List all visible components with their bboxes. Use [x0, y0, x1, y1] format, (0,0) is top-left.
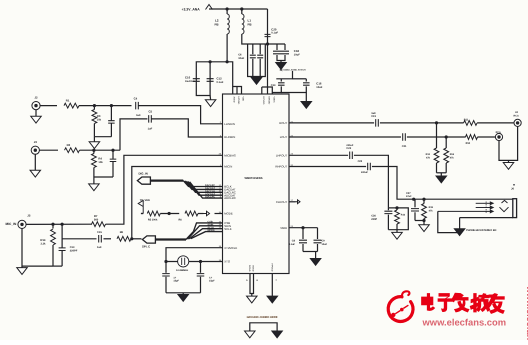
junction hp rail R15	[422, 198, 425, 201]
svg-text:R4: R4	[98, 157, 102, 161]
svg-text:47uF: 47uF	[406, 195, 412, 198]
wire DGND pins down	[250, 274, 254, 294]
headphone jack contact tip	[476, 202, 491, 204]
jack J7 LOUT RCA	[495, 133, 502, 140]
svg-text:ADCLRC: ADCLRC	[205, 196, 215, 199]
jack J5 mic input	[18, 220, 26, 228]
wire bus fan SCLK	[189, 229, 222, 239]
wire R10 to J7	[478, 136, 496, 138]
wire DCVDD riser	[262, 87, 273, 94]
svg-text:R16: R16	[401, 214, 406, 217]
ground analog decoupling	[205, 100, 216, 107]
svg-text:220uF: 220uF	[361, 171, 368, 174]
junction C12 top	[209, 60, 212, 63]
jack J2 left line input	[32, 102, 40, 110]
svg-text:R2: R2	[67, 143, 71, 147]
wire R11 to J4	[477, 122, 514, 124]
junction hp shunt gnd	[422, 219, 425, 222]
junction left-in node	[93, 104, 96, 107]
wire J5 to node	[26, 223, 92, 225]
svg-text:+3.3V_ANA: +3.3V_ANA	[182, 8, 201, 12]
svg-text:10uF: 10uF	[322, 243, 328, 246]
wire node up to C5 row	[120, 119, 147, 150]
ground load resistors	[436, 176, 447, 183]
wire CLKOUT stub	[289, 201, 296, 203]
svg-text:R1: R1	[66, 98, 70, 102]
svg-text:SCLK: SCLK	[224, 227, 231, 231]
svg-text:DCVDD: DCVDD	[262, 97, 265, 105]
junction esd box	[395, 206, 398, 209]
svg-text:PHONEJACKSTEREO EN: PHONEJACKSTEREO EN	[466, 229, 496, 232]
svg-text:DGND: DGND	[248, 265, 251, 272]
capacitor C14 0.1uF	[280, 79, 282, 82]
ground C16	[301, 102, 312, 109]
junction right-in node	[92, 149, 95, 152]
svg-text:WM8731SEDS: WM8731SEDS	[245, 177, 263, 180]
resistor R3 10k shunt	[93, 106, 95, 110]
capacitor C4 series	[136, 102, 139, 110]
net arrow to MODE pin	[204, 211, 210, 216]
inductor L1	[242, 14, 244, 34]
svg-text:XTO: XTO	[224, 260, 231, 264]
wire L1 to digital rail	[242, 34, 268, 44]
net arrow CLKOUT	[296, 200, 301, 204]
wire XTI to crystal	[166, 248, 223, 262]
wire right-in shunt bottoms	[94, 176, 113, 178]
ground hp shunt	[419, 225, 430, 232]
junction micin riser	[130, 237, 133, 240]
svg-text:1uF: 1uF	[371, 112, 376, 115]
junction mode pull	[168, 212, 171, 215]
ground esd pair	[392, 232, 403, 239]
wire R5 to R6	[160, 213, 179, 215]
svg-text:0.1uF: 0.1uF	[271, 32, 278, 35]
svg-text:MIC_IN: MIC_IN	[6, 222, 18, 226]
capacitor C18 10uF	[284, 44, 286, 50]
jack J3 right line input	[31, 146, 39, 154]
wire load resistor bottoms	[437, 172, 447, 174]
capacitor C12 0.1uF	[207, 79, 214, 82]
chip top pin labels	[233, 97, 276, 105]
svg-text:LOUT: LOUT	[280, 135, 288, 139]
op-amp U1 WM8731 codec body	[223, 94, 290, 274]
wire LOUT row	[289, 136, 401, 138]
svg-text:R8: R8	[120, 231, 124, 234]
capacitor C13 220pF shunt	[61, 224, 63, 248]
capacitor C8 0.1uF	[302, 228, 304, 239]
svg-text:R3: R3	[97, 114, 101, 118]
wire bus fan ADCLRC	[190, 182, 223, 198]
svg-text:MODE: MODE	[224, 212, 233, 216]
capacitor C7 10uF pair-b	[259, 44, 261, 54]
wire left-in shunt bottoms	[94, 136, 111, 138]
ground join right	[272, 331, 283, 338]
wire J2 to R1	[40, 105, 57, 107]
wire C14 C16 bottoms	[272, 86, 281, 92]
wire J2 ground	[35, 110, 37, 117]
chip left pin labels	[219, 121, 238, 263]
wire L2 to analog decoupling node	[226, 34, 228, 62]
bus wire net name tags	[205, 184, 215, 199]
ground right-in network	[89, 184, 100, 191]
ground DGND	[247, 296, 257, 303]
wire R6 to arrow	[198, 213, 204, 215]
svg-text:ADCLRC: ADCLRC	[224, 196, 236, 200]
wire bus fan MODE2	[191, 232, 223, 239]
capacitor C27 47uF	[414, 199, 416, 207]
svg-text:47k: 47k	[426, 156, 431, 159]
spi wire net name tags	[208, 221, 216, 233]
junction A-node	[226, 60, 229, 63]
wire bus fan ADCDAT	[188, 182, 223, 196]
ground C18 pair	[276, 63, 287, 70]
svg-text:220uF: 220uF	[346, 144, 353, 147]
capacitor C17 10uF	[276, 44, 278, 50]
wire ROUT row	[289, 122, 374, 124]
svg-text:MODE: MODE	[208, 229, 216, 232]
wire DBVDD cluster top	[276, 71, 292, 79]
svg-text:10uF: 10uF	[238, 57, 244, 60]
net label DGND_AGND_STITCH	[280, 69, 283, 71]
headphone jack J6 sleeve bar	[513, 199, 517, 218]
watermark chinese title	[422, 293, 505, 313]
crystal X1 12.288MHz	[178, 256, 189, 267]
wire C5 to RLINEIN	[151, 119, 222, 137]
capacitor C3 shunt	[112, 150, 114, 159]
inductor L2	[227, 14, 229, 34]
resistor R13 47k load	[445, 137, 447, 148]
svg-text:VDD: VDD	[242, 97, 245, 102]
svg-text:560: 560	[94, 218, 99, 221]
junction vmid c8	[301, 226, 304, 229]
ground AGND	[267, 296, 278, 303]
svg-text:R5 100k: R5 100k	[148, 218, 158, 221]
svg-text:47k: 47k	[429, 209, 434, 212]
svg-text:C15: C15	[97, 231, 102, 234]
wire crystal bottom rail	[166, 292, 201, 294]
wire phone jack ground stem	[459, 218, 461, 229]
svg-text:0.1uF: 0.1uF	[289, 243, 296, 246]
wire XTO to crystal	[201, 261, 223, 263]
svg-text:RCA: RCA	[514, 115, 519, 118]
capacitor C23 220uF series	[368, 163, 371, 171]
svg-text:DGND_AGND_STITCH: DGND_AGND_STITCH	[284, 69, 307, 72]
wire ground join bracket	[250, 323, 277, 331]
headphone jack contact ring	[476, 207, 491, 209]
svg-text:1uF: 1uF	[97, 246, 102, 249]
svg-text:VDDC: VDDC	[272, 97, 275, 104]
svg-text:www.elecfans.com: www.elecfans.com	[422, 316, 507, 327]
wire C12 to ground	[209, 96, 212, 100]
watermark elecfans logo ring	[388, 291, 413, 321]
svg-text:SPI_C: SPI_C	[142, 244, 150, 248]
wire mic shunt bottoms	[53, 265, 62, 267]
wire C19 to R11	[380, 122, 464, 124]
ground left-in network	[89, 142, 100, 149]
wire RCA jack grounds	[499, 127, 518, 161]
svg-text:RLINEIN: RLINEIN	[224, 135, 235, 139]
capacitor C15 1uF series	[99, 235, 102, 243]
capacitor C26 220pF esd	[387, 208, 389, 210]
svg-text:R11: R11	[464, 119, 469, 122]
svg-text:AVDD: AVDD	[233, 97, 236, 103]
junction crystal right	[199, 260, 202, 263]
wire J3 ground	[34, 154, 36, 170]
wire C18 pair to ground	[277, 55, 285, 61]
wire AVDD riser	[227, 62, 233, 94]
wire mic ac path	[62, 238, 96, 240]
wire flag to R5	[141, 213, 143, 215]
svg-text:HPVDD: HPVDD	[237, 97, 240, 105]
svg-text:R14: R14	[40, 238, 46, 242]
capacitor C2 shunt	[110, 106, 112, 121]
junction lout load	[445, 135, 448, 138]
svg-text:10uF: 10uF	[294, 53, 300, 56]
wire C21 to R10	[407, 136, 466, 138]
capacitor C9 10uF	[317, 228, 319, 239]
svg-text:ROUT: ROUT	[279, 121, 287, 125]
svg-text:XTI/MCLK: XTI/MCLK	[224, 246, 237, 250]
svg-text:J5: J5	[27, 214, 31, 218]
wire MODE stub	[215, 213, 223, 215]
power symbol +3.3V_ANA	[206, 5, 213, 10]
wire C16 to ground	[305, 93, 307, 102]
resistor R5 100k	[147, 211, 160, 216]
wire AGND pin down	[271, 274, 273, 297]
wire bus fan DACDAT	[185, 181, 223, 190]
capacitor C22 220uF series	[350, 152, 353, 160]
ground crystal	[182, 293, 184, 295]
junction rail-L1	[240, 7, 243, 10]
svg-text:C10: C10	[185, 76, 191, 80]
svg-text:47k: 47k	[450, 156, 455, 159]
svg-text:LHPOUT: LHPOUT	[276, 153, 288, 157]
svg-text:DIG_IN: DIG_IN	[139, 172, 148, 176]
svg-text:3.3k: 3.3k	[40, 242, 46, 245]
headphone jack contact ticks	[485, 202, 487, 214]
svg-text:220P: 220P	[371, 218, 377, 221]
svg-text:AGND: AGND	[252, 265, 255, 272]
capacitor C6 10uF pair-a	[252, 44, 254, 54]
wire node to C10 group	[196, 62, 227, 96]
wire R8 to MICIN riser	[131, 167, 223, 239]
resistor R15 47k	[422, 204, 427, 219]
wire LHPOUT row	[289, 154, 348, 156]
wire analog cap box	[248, 44, 266, 77]
wire crystal top rail	[166, 261, 201, 263]
svg-text:R7: R7	[94, 214, 98, 218]
ground phone jack	[454, 229, 465, 236]
svg-text:HPGND: HPGND	[270, 264, 273, 272]
svg-text:C19: C19	[371, 115, 376, 118]
wire R1 to node	[79, 105, 132, 107]
wire VMID row	[289, 227, 318, 229]
resistor R2	[65, 148, 80, 153]
svg-text:LLINEIN: LLINEIN	[224, 122, 235, 126]
svg-text:12.288MHz: 12.288MHz	[176, 269, 189, 272]
resistor R6 100k	[185, 211, 198, 216]
svg-text:C22: C22	[346, 147, 351, 150]
svg-text:1uF: 1uF	[148, 128, 153, 131]
resistor R10	[466, 135, 478, 140]
resistor R11	[464, 121, 478, 126]
svg-text:10k: 10k	[98, 161, 103, 164]
svg-text:10uF/16V: 10uF/16V	[185, 80, 196, 83]
wire R7 to MICBIAS	[106, 155, 223, 224]
capacitor C20 0.1uF on rail	[265, 34, 271, 36]
resistor R8	[117, 236, 131, 241]
jack J4 ROUT RCA	[514, 119, 521, 126]
ground RCA jacks	[503, 163, 514, 170]
off-page connector DIG_IN	[137, 177, 150, 184]
wire spi bus thick	[155, 238, 186, 240]
wire digital bus thick	[150, 180, 183, 182]
svg-text:DBVDD: DBVDD	[268, 97, 271, 105]
headphone jack springs	[500, 200, 509, 211]
ground J3	[30, 170, 41, 177]
svg-text:C5: C5	[149, 110, 153, 114]
wire headphone bottom rail	[460, 217, 513, 219]
off-page connector SPI_C	[142, 236, 155, 243]
capacitor C5 series	[149, 115, 152, 123]
wire C22 to headphone box	[354, 155, 389, 208]
svg-text:GROUND JOINED HERE: GROUND JOINED HERE	[247, 316, 278, 319]
junction mic node1	[51, 223, 54, 226]
junction mic node2	[61, 223, 64, 226]
svg-text:RCA: RCA	[496, 131, 501, 134]
wire C4 to LLINEIN	[138, 106, 222, 124]
svg-text:R10: R10	[466, 142, 471, 145]
resistor R4 10k shunt	[93, 150, 95, 153]
svg-text:VMID: VMID	[280, 226, 287, 230]
wire power rail	[209, 8, 268, 10]
svg-text:10uF: 10uF	[316, 86, 322, 89]
wire micin to wedge	[132, 238, 142, 240]
junction digital rail	[266, 42, 269, 45]
capacitor C10 10uF/16V	[193, 79, 200, 82]
svg-text:C23: C23	[358, 160, 363, 163]
resistor R1	[64, 103, 79, 108]
wire main digital supply vertical	[267, 9, 269, 94]
svg-text:MICBIAS: MICBIAS	[224, 153, 236, 157]
ground join left	[245, 331, 256, 338]
junction rout load	[435, 121, 438, 124]
wire pair to ground	[256, 77, 258, 78]
resistor R14 3.3k shunt	[52, 224, 54, 228]
headphone jack contact sleeve	[438, 210, 491, 212]
wire esd box top	[388, 208, 408, 230]
wire R2 to node	[80, 149, 121, 151]
resistor R16 shunt	[396, 208, 398, 210]
wire HPVDD stub	[233, 87, 242, 95]
wire sleeve return	[438, 211, 460, 232]
wire bus fan BCLK	[183, 181, 222, 187]
wire RHPOUT row	[289, 166, 366, 168]
wire rail to C18 pair	[268, 43, 286, 45]
ground digital pair	[251, 78, 262, 85]
wire bus fan SDIN	[188, 226, 223, 239]
svg-text:220PF: 220PF	[70, 249, 78, 252]
svg-text:RHPOUT: RHPOUT	[275, 165, 287, 169]
svg-text:15pF: 15pF	[173, 280, 179, 283]
wire vmid cap bottoms	[303, 251, 318, 253]
capacitor C25 15pF	[200, 262, 202, 273]
svg-text:15pF: 15pF	[209, 280, 215, 283]
wire bus fan CSB	[186, 231, 194, 239]
chip right pin labels	[275, 120, 293, 230]
svg-text:J2: J2	[34, 96, 38, 100]
wire bus fan DACLRC	[186, 181, 222, 192]
wire hp shunt bottoms	[415, 220, 424, 222]
wire C15 to R8	[104, 238, 112, 240]
capacitor C24 15pF	[165, 262, 167, 273]
capacitor C19 1uF series	[376, 119, 379, 127]
svg-text:1uF: 1uF	[136, 114, 141, 117]
capacitor C16 10uF	[305, 79, 307, 82]
chip bottom pin labels	[248, 264, 273, 272]
svg-text:C4: C4	[134, 97, 138, 101]
junction hp rail C27	[412, 198, 415, 201]
ground mic input	[17, 268, 28, 275]
junction rail-L2	[226, 7, 229, 10]
junction left-in cap node	[110, 104, 113, 107]
wire esd ground stem	[396, 230, 398, 233]
resistor R12 47k load	[436, 123, 438, 148]
ground vmid caps	[310, 259, 321, 266]
junction right-in cap node	[111, 149, 114, 152]
svg-text:10k: 10k	[97, 118, 102, 121]
svg-text:0.1uF: 0.1uF	[217, 81, 224, 84]
capacitor C21 1uF series	[403, 133, 406, 141]
svg-text:J3: J3	[34, 140, 38, 144]
wire J3 to R2	[39, 149, 58, 151]
wire C23 to headphone rail	[372, 167, 513, 200]
ground J2	[31, 116, 42, 123]
resistor R7 560 to MICBIAS	[92, 222, 106, 227]
svg-text:MICIN: MICIN	[224, 165, 232, 169]
svg-text:C21: C21	[402, 145, 407, 148]
junction crystal left	[164, 260, 167, 263]
svg-text:CLKOUT: CLKOUT	[276, 200, 288, 204]
